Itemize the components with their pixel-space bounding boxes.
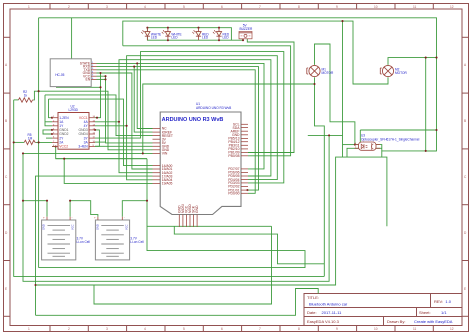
svg-text:6: 6 <box>221 327 223 331</box>
svg-text:HC-05: HC-05 <box>55 73 64 77</box>
node HC05 GND drop <box>99 72 101 74</box>
U1 bottom ICSP pin names <box>177 204 199 213</box>
HC-05 pin numbers <box>92 62 94 80</box>
node opto feed join <box>341 20 343 22</box>
wire L293D 3A right <box>95 141 106 143</box>
wire L293D GND34 tie <box>95 130 99 146</box>
svg-text:4: 4 <box>144 327 146 331</box>
node L293D vcc2 <box>55 145 57 147</box>
node LED2 top <box>167 27 169 29</box>
wire M1 top loop <box>315 44 355 145</box>
battery BT2 <box>94 216 144 260</box>
svg-text:Create with EasyEDA: Create with EasyEDA <box>414 319 453 324</box>
svg-text:5: 5 <box>183 327 185 331</box>
node R5 left <box>13 141 15 143</box>
svg-text:L293D: L293D <box>69 108 79 112</box>
svg-text:VCC: VCC <box>71 224 75 230</box>
node mystery rail join <box>328 134 330 136</box>
svg-text:B: B <box>5 119 7 123</box>
node opto anode <box>354 144 356 146</box>
wire A04 feeder <box>127 126 153 180</box>
wire A05 feeder <box>64 159 152 184</box>
wire battery2 plus rail <box>122 201 147 217</box>
svg-text:10: 10 <box>374 327 378 331</box>
arduino U1 <box>153 102 249 227</box>
svg-text:Bluetooth Arduino car: Bluetooth Arduino car <box>309 302 348 307</box>
svg-text:MOTOR: MOTOR <box>322 71 335 75</box>
node HC05 VCC drop <box>104 75 106 77</box>
wire HC05 TXD rail to PD0 <box>97 70 256 194</box>
node LED4 top <box>218 27 220 29</box>
svg-text:3-4EN: 3-4EN <box>78 145 88 149</box>
svg-text:ARDUINO UNO R3 WvB: ARDUINO UNO R3 WvB <box>196 106 231 110</box>
wire L293D 2A to R5 <box>14 141 25 143</box>
U2 left pin names <box>59 116 69 149</box>
node LED3 top <box>197 27 199 29</box>
svg-text:7: 7 <box>259 327 261 331</box>
led D3 red <box>192 28 201 41</box>
node rail3 tap <box>34 284 36 286</box>
wire bottom rail 1 <box>14 100 325 277</box>
svg-text:-: - <box>124 216 125 220</box>
node RXD branch <box>133 66 135 68</box>
svg-text:11: 11 <box>413 327 417 331</box>
wire top rail to M2 <box>39 18 437 151</box>
resistor R5 <box>24 133 36 145</box>
svg-text:PB0/08: PB0/08 <box>228 154 239 158</box>
svg-text:9: 9 <box>336 5 338 9</box>
node battery1 left riser <box>46 200 48 202</box>
motor M1 <box>307 65 320 76</box>
wire R5 to 2A <box>36 141 52 143</box>
node M2 opto link top <box>425 57 427 59</box>
wire 2Y stub <box>46 137 52 139</box>
wire NC feed <box>137 63 152 128</box>
node LED2 bottom <box>167 39 169 41</box>
node PD1 pin <box>246 189 248 191</box>
node R2 rail join <box>38 90 40 92</box>
node L293D gnd2 <box>51 133 53 135</box>
svg-text:4: 4 <box>144 5 146 9</box>
node M2 opto link bottom <box>425 150 427 152</box>
wire rail y46 to PB0 <box>123 46 291 156</box>
node HC05 EN tie <box>104 78 106 80</box>
svg-text:1/1: 1/1 <box>441 310 447 315</box>
svg-text:7: 7 <box>259 5 261 9</box>
node L293D gnd1 <box>51 129 53 131</box>
svg-text:8: 8 <box>298 327 300 331</box>
svg-text:3: 3 <box>106 327 108 331</box>
svg-text:1k: 1k <box>24 93 28 97</box>
svg-text:GND: GND <box>195 205 199 213</box>
svg-text:11: 11 <box>413 5 417 9</box>
wire opto collector loop <box>360 129 436 131</box>
wire L293D 4A up to PD5 <box>95 60 271 176</box>
wire L293D gnd tie left <box>43 130 52 134</box>
node R5 right <box>38 141 40 143</box>
svg-text:+: + <box>94 216 96 220</box>
svg-text:LED: LED <box>171 36 178 40</box>
wire rail y226 <box>147 225 272 227</box>
svg-text:EN: EN <box>85 78 90 82</box>
wire LED top rail <box>147 28 231 41</box>
wire bottom rail 3 <box>36 157 387 285</box>
node L293D vcc1 <box>96 117 98 119</box>
svg-text:GND: GND <box>42 224 46 230</box>
wire 1A stub <box>45 121 52 123</box>
node battery2 plus <box>146 200 148 202</box>
svg-text:Date:: Date: <box>307 310 317 315</box>
svg-text:-: - <box>72 216 73 220</box>
wire opto feed vertical <box>342 21 344 157</box>
wire opto cathode <box>347 148 359 157</box>
wire bottom rail 4 <box>94 226 272 304</box>
bluetooth module HC-05 <box>50 59 96 87</box>
svg-text:B: B <box>464 119 466 123</box>
svg-text:Drawn By:: Drawn By: <box>387 319 405 324</box>
wire mid rail y158 <box>56 158 147 160</box>
node vin join <box>22 152 24 154</box>
svg-text:+: + <box>43 216 45 220</box>
HC-05 pin stubs 1-6 <box>91 63 96 79</box>
wire HC05 GND rail to A01 <box>97 73 153 169</box>
wire A03 rail <box>36 176 153 315</box>
wire opto top stub <box>359 130 361 142</box>
svg-text:19/A05: 19/A05 <box>162 182 173 186</box>
svg-text:2: 2 <box>68 5 70 9</box>
wire L293D 4Y up to PD4 <box>95 56 277 180</box>
wire HC05 RXD rail to PD1 <box>97 67 259 191</box>
U2 pin numbers <box>53 116 96 147</box>
svg-text:ARDUINO UNO R3 WvB: ARDUINO UNO R3 WvB <box>162 117 224 123</box>
resistor R2 <box>18 90 33 102</box>
svg-text:12: 12 <box>450 5 454 9</box>
node A02 tap <box>118 121 120 123</box>
motor M2 <box>380 65 393 76</box>
node M1 bottom tee <box>313 83 315 85</box>
svg-text:6: 6 <box>221 5 223 9</box>
led D4 red <box>213 28 222 41</box>
node LED1 top <box>146 27 148 29</box>
svg-text:5: 5 <box>183 5 185 9</box>
node STATE branch <box>136 62 138 64</box>
wire rail r4 to A00 <box>49 99 153 166</box>
svg-text:2: 2 <box>68 327 70 331</box>
node M2 rail tee <box>435 57 437 59</box>
wire R2 right to GND2 row <box>34 91 153 150</box>
U1 pin stubs <box>153 124 249 227</box>
U1 left pin names <box>162 127 173 186</box>
U2 pin stubs <box>52 118 95 147</box>
wire GND row drop <box>100 73 102 87</box>
optocoupler U3 <box>355 134 420 151</box>
wire R2 left stub <box>14 99 19 101</box>
svg-text:VCC2: VCC2 <box>59 145 68 149</box>
U2 right pin names <box>78 116 88 149</box>
wire 12EN drop <box>49 99 53 118</box>
svg-text:8: 8 <box>298 5 300 9</box>
svg-text:1: 1 <box>28 5 30 9</box>
svg-text:BUZZER: BUZZER <box>240 27 253 31</box>
node M1 rail join <box>142 152 144 154</box>
svg-text:1: 1 <box>28 327 30 331</box>
svg-text:VIN: VIN <box>162 152 168 156</box>
led D1 white <box>141 28 150 41</box>
node A04 tap <box>126 125 128 127</box>
svg-text:Li-on Cell: Li-on Cell <box>130 240 144 244</box>
motor driver U2 L293D <box>52 104 96 149</box>
node buzzer left leg <box>242 39 244 41</box>
wire HC05 top drop <box>71 18 73 59</box>
wire L293D 3-4EN to GND <box>95 145 153 147</box>
svg-text:1M: 1M <box>28 136 33 140</box>
led D2 white <box>162 28 171 41</box>
svg-text:TITLE:: TITLE: <box>307 295 319 300</box>
wire M1 gnd rail <box>143 84 315 153</box>
buzzer LS1 <box>239 24 253 39</box>
svg-text:Sheet:: Sheet: <box>419 310 431 315</box>
svg-text:E: E <box>464 287 466 291</box>
svg-text:10: 10 <box>374 5 378 9</box>
svg-text:9: 9 <box>336 327 338 331</box>
wire opto anode <box>343 144 359 146</box>
wire M2 top stub <box>388 58 437 65</box>
svg-text:MOTOR: MOTOR <box>395 71 408 75</box>
node r1 corner join <box>99 86 101 88</box>
svg-text:Optocoupler_SFH617A-1_SingleCh: Optocoupler_SFH617A-1_SingleChannel <box>361 137 420 141</box>
wire HC05 VCC to 5V <box>97 76 153 143</box>
wire rail y21 to M2 bottom <box>123 21 388 84</box>
wire L293D 3Y up to PD3 <box>95 52 284 183</box>
node opto loop tee <box>435 129 437 131</box>
svg-text:3: 3 <box>106 5 108 9</box>
wire mid step rail <box>174 226 324 263</box>
wire opto emitter rail <box>382 150 437 152</box>
node L293D pin1 <box>51 117 53 119</box>
wire M1 bottom rail <box>315 77 325 276</box>
wire opto pin4 <box>376 145 382 158</box>
svg-text:2017-11-11: 2017-11-11 <box>322 310 343 315</box>
wire LED bottom rail <box>147 28 243 41</box>
HC-05 pin names <box>80 62 91 82</box>
wire mystery rail <box>308 134 343 136</box>
wire battery1 minus rail <box>23 201 47 217</box>
wire long vertical x38 <box>38 18 40 268</box>
wire opto pin3 <box>376 147 382 149</box>
U1 right pin names <box>228 123 240 196</box>
wire rail r1 to VCC1 <box>56 87 101 117</box>
svg-text:PD0/00: PD0/00 <box>228 192 239 196</box>
wire bottom rail 2 <box>23 135 329 281</box>
node LED4 bottom <box>218 39 220 41</box>
svg-text:Li-on Cell: Li-on Cell <box>77 240 91 244</box>
node A05 tap <box>63 158 65 160</box>
wire battery1 plus to battery2 minus <box>70 201 98 217</box>
wire bottom rail 5 <box>36 289 319 316</box>
wire 1Y stub <box>45 95 52 126</box>
node L293D gnd3 <box>94 129 96 131</box>
svg-text:VCC: VCC <box>124 224 128 230</box>
wire IOREF feed <box>134 67 152 133</box>
wire L293D VCC2 down <box>52 147 147 159</box>
svg-text:LED: LED <box>151 36 158 40</box>
battery BT1 <box>42 216 91 260</box>
wire buzzer right rail to PB1 <box>247 39 294 153</box>
wire A02 feeder <box>119 122 153 173</box>
wire HC05 STATE rail to PD7 <box>97 63 265 168</box>
wire M2 opto link <box>425 58 427 151</box>
wire VIN rail <box>23 152 153 154</box>
node battery1 minus <box>22 200 24 202</box>
wire rail r3 to RESET <box>45 95 153 136</box>
svg-text:EasyEDA V4.10.3: EasyEDA V4.10.3 <box>307 319 340 324</box>
wire HC05 EN tie <box>97 78 106 80</box>
node battery1 right riser <box>69 200 71 202</box>
svg-text:GND: GND <box>96 224 100 230</box>
svg-text:LED: LED <box>223 36 230 40</box>
svg-text:E: E <box>5 287 7 291</box>
svg-text:REV: 1.0: REV: 1.0 <box>434 299 452 304</box>
svg-text:12: 12 <box>450 327 454 331</box>
wire battery mid rail <box>39 159 305 268</box>
svg-text:LED: LED <box>202 36 209 40</box>
title block <box>304 294 462 326</box>
